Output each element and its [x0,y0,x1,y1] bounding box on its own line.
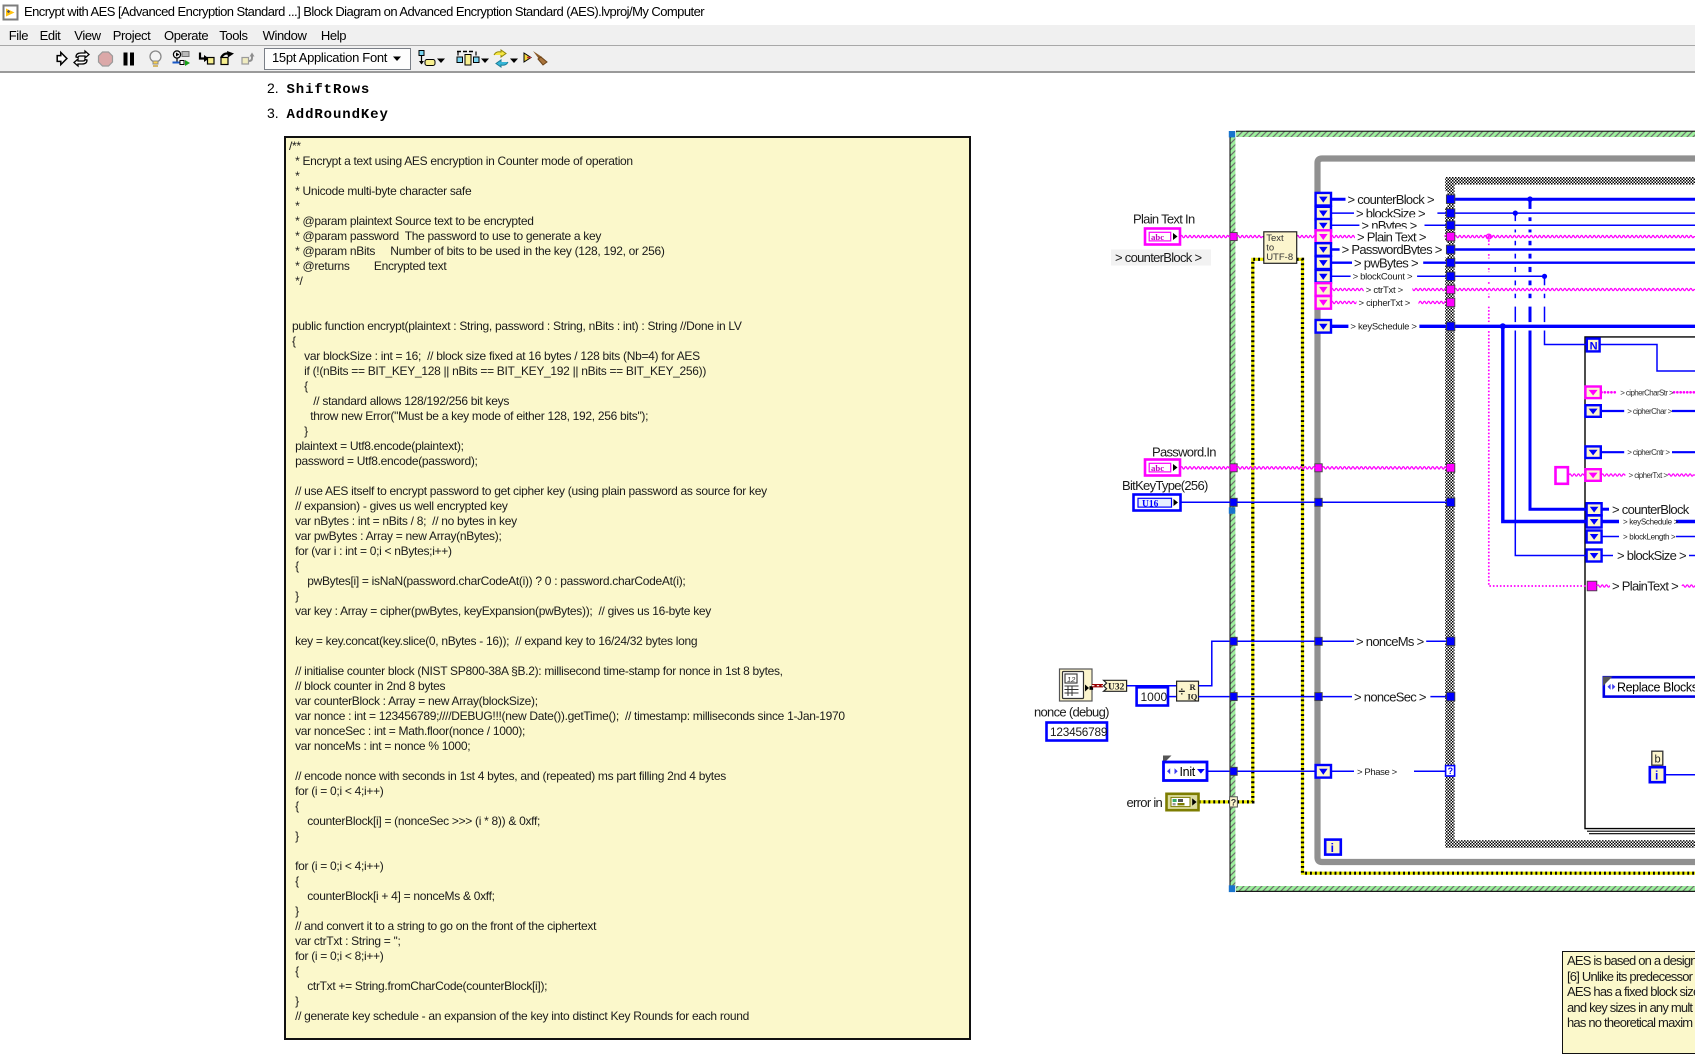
svg-text:Password.In: Password.In [1152,445,1216,460]
wire row blockCount [1331,275,1447,277]
svg-text:> counterBlock >: > counterBlock > [1115,250,1201,265]
AES note box bottom right [1562,951,1695,1054]
junction ring PlainText [1486,234,1491,239]
svg-text:nonce (debug): nonce (debug) [1034,705,1109,720]
wire Phase row [1331,770,1446,772]
step out (grayed) [242,58,249,65]
selection handle mid-left [1229,507,1235,513]
wire row counterBlock [1331,198,1447,201]
retain wire values [173,51,180,58]
tunnel PlainText inner [1587,581,1597,591]
svg-text:> blockLength >: > blockLength > [1623,532,1676,541]
outer green hatched structure border [1230,131,1695,892]
wire row keySchedule [1331,325,1447,328]
terminal Password.In (abc) [1145,460,1180,476]
wire vertical blockCount to N [1545,276,1588,344]
align objects [419,51,424,56]
svg-text:N: N [1590,340,1598,352]
svg-text:1000: 1000 [1141,690,1168,704]
tunnel PlainText [1446,232,1454,241]
tunnel stipple border Password [1446,464,1454,473]
svg-text:i: i [1655,768,1658,782]
svg-text:Replace Blocks: Replace Blocks [1617,680,1695,694]
shift register cipherCharStr [1585,387,1600,399]
svg-text:> keySchedule >: > keySchedule > [1350,322,1417,333]
svg-text:error in: error in [1127,795,1163,810]
constant empty string (pink) [1556,467,1568,484]
step into [200,53,205,59]
wire vertical blockSize feed [1515,213,1586,555]
svg-text:BitKeyType(256): BitKeyType(256) [1122,478,1208,493]
svg-text:> cipherCntr >: > cipherCntr > [1627,448,1670,457]
crossing gaps [1528,209,1533,217]
wire U32 to divide [1127,685,1177,687]
svg-text:U16: U16 [1142,499,1159,509]
svg-text:> cipherCharStr >: > cipherCharStr > [1620,388,1674,397]
wire row ctrTxt [1331,288,1447,290]
svg-text:> counterBlock >: > counterBlock > [1348,192,1434,207]
selection handle top-left [1229,131,1235,137]
svg-text:IQ: IQ [1188,692,1198,702]
tunnel blockCount [1446,272,1454,281]
label PlainText [1355,229,1445,245]
wire Init to Phase SR [1207,770,1230,772]
tunnel green border PlainText [1230,233,1237,241]
svg-text:?: ? [1448,766,1454,776]
wire empty string to cipherTxt SR [1569,474,1585,476]
label PasswordBytes [1340,241,1448,257]
wire N to right [1600,345,1695,372]
count terminal N [1587,339,1600,352]
wire vertical counterBlock feed [1530,199,1587,509]
shift register blockSize2 [1587,550,1602,562]
svg-text:> cipherTxt >: > cipherTxt > [1359,298,1411,309]
run continuously [74,51,89,66]
inner N for-loop thin border [1585,337,1695,829]
shift register Phase [1316,765,1331,778]
svg-text:abc: abc [1151,232,1164,242]
label counterBlock [1346,191,1448,207]
svg-text:> PlainText >: > PlainText > [1612,579,1678,594]
wire cipherCntr [1602,451,1695,453]
junction dot blockSize [1513,211,1518,216]
register b [1652,751,1663,765]
constant Init enum [1163,756,1172,765]
wire vertical PlainText feed (dotted pink) [1489,237,1588,586]
toolbar [0,46,1695,73]
label keySchedule [1348,320,1419,332]
tunnel counterBlock [1446,195,1454,204]
shift register pwBytes [1316,256,1331,269]
error wire [1199,259,1695,873]
svg-text:123456789: 123456789 [1050,725,1107,739]
constant nonce icon [1060,669,1093,701]
shift register cipherChar [1585,405,1600,417]
tunnel stipple border nonceMs [1446,637,1454,646]
font dropdown arrow [393,57,401,62]
svg-text:abc: abc [1151,463,1164,473]
wire Plain Text node to SR [1297,235,1316,237]
svg-text:b: b [1655,754,1661,766]
tunnel stipple border BitKeyType [1446,498,1454,507]
svg-text:> nonceSec >: > nonceSec > [1354,689,1426,704]
label nBytes [1359,217,1424,233]
shift register blockSize [1316,207,1331,220]
wire BitKeyType [1181,501,1231,503]
svg-text:?: ? [1231,797,1237,807]
label ctrTxt [1364,284,1413,296]
wire R output up to nonceMs row [1199,641,1231,685]
shift register blockCount [1316,270,1331,283]
wire row PasswordBytes [1331,248,1447,250]
svg-text:÷: ÷ [1179,685,1186,699]
label blockCount [1351,270,1418,282]
wire 1000 to divide [1168,696,1177,698]
coercion wire nonce to U32 (red dashed) [1092,684,1103,687]
case structure Replace Blocks label [1604,677,1695,696]
tunnel green border nonceSec [1230,693,1237,701]
distribute objects [457,51,473,53]
wire row cipherTxt [1331,301,1447,303]
clean up diagram [524,53,531,62]
node Quotient-Remainder [1177,681,1199,701]
tunnel keySchedule [1446,322,1454,331]
svg-text:> cipherTxt >: > cipherTxt > [1629,471,1669,480]
tunnel PasswordBytes [1446,245,1454,254]
svg-text:> nonceMs >: > nonceMs > [1356,634,1424,649]
resize objects [494,50,506,57]
wire row nonceSec [1237,696,1316,698]
wire vertical keySchedule feed [1503,326,1587,521]
wire cipherCharStr [1602,391,1695,394]
numbered list [267,80,370,98]
terminal error in [1167,794,1199,810]
wire row pwBytes [1331,262,1447,264]
svg-text:Init: Init [1180,765,1196,779]
shift register keySchedule [1316,320,1331,333]
tunnel green border nonceMs [1230,637,1237,645]
wire row PlainText [1331,235,1447,237]
wire blockSize2 [1602,555,1613,557]
highlight execution bulb [150,51,161,62]
iteration terminal i (while) [1325,840,1341,855]
pause [124,53,128,66]
tunnel pwBytes [1446,258,1454,267]
svg-text:Plain Text In: Plain Text In [1133,212,1195,227]
tunnel cipherTxt [1446,298,1454,307]
wire counterBlock2 [1602,508,1609,511]
svg-text:> ctrTxt >: > ctrTxt > [1366,285,1404,296]
junction dot counterBlock [1527,196,1533,202]
tunnel gray border Password [1315,464,1322,472]
coercion U32 box [1104,680,1127,691]
shift register PlainText [1316,230,1331,243]
label cipherTxt [1357,297,1419,309]
shift register counterBlock [1316,193,1331,206]
tunnel green border Init [1230,767,1237,775]
svg-text:> blockSize >: > blockSize > [1617,548,1686,563]
svg-text:12: 12 [1067,675,1076,684]
wire row nonceMs [1237,640,1316,642]
tunnel gray border BitKeyType [1315,498,1322,506]
shift register blockLength [1587,531,1602,543]
shift register nBytes [1316,219,1331,232]
wire IQ output to nonceSec row [1199,696,1231,698]
terminal Plain Text In (abc) [1145,229,1180,245]
iteration terminal i (inner) [1650,767,1665,782]
svg-text:UTF-8: UTF-8 [1266,252,1293,263]
label blockSize [1354,205,1437,221]
wire Plain Text In to structure [1181,235,1231,237]
tunnel gray border nonceMs [1315,637,1322,645]
wire PlainText inner [1597,585,1610,587]
svg-text:i: i [1331,841,1334,855]
for loop stippled border [1445,177,1454,848]
junction dot blockCount [1542,274,1547,279]
label Phase [1354,764,1414,779]
tunnel blockSize [1446,209,1454,218]
tunnel nBytes [1446,221,1454,230]
wire blockLength [1602,536,1619,538]
tunnel ? Phase on stipple border [1446,766,1455,776]
shift register cipherTxt [1585,469,1600,481]
tunnel ctrTxt [1446,285,1454,294]
wire Plain Text inside green to node [1237,235,1264,237]
svg-text:> pwBytes >: > pwBytes > [1354,255,1418,270]
step over [221,54,229,59]
free label > counterBlock > [1111,250,1211,266]
shift register ctrTxt [1316,283,1331,296]
tunnel green border Password [1230,464,1237,472]
run arrow [57,52,67,64]
svg-text:> counterBlock: > counterBlock [1612,502,1690,517]
wire cipherChar [1602,410,1695,412]
menu bar [0,25,1695,45]
svg-text:> cipherChar >: > cipherChar > [1627,407,1672,416]
tunnel ? error on green border [1230,797,1238,807]
window title bar [0,0,1695,25]
label pwBytes [1352,255,1423,271]
tunnel stipple border nonceSec [1446,692,1454,701]
svg-text:> blockCount >: > blockCount > [1353,272,1413,283]
selection handle bottom-left [1229,885,1235,892]
shift register PasswordBytes [1316,243,1331,256]
wire row nBytes [1331,224,1447,226]
while loop gray border [1318,159,1695,863]
stop (grayed) [99,52,113,66]
wire i to right [1665,774,1695,776]
terminal BitKeyType U16 [1134,495,1181,511]
tunnel gray border nonceSec [1315,693,1322,701]
constant 123456789 [1047,723,1108,741]
wire cipherTxt [1602,474,1695,476]
node Text to UTF-8 [1264,232,1297,263]
tunnel green border BitKeyType [1230,498,1237,506]
shift register counterBlock2 [1587,503,1602,515]
shift register cipherCntr [1585,446,1600,458]
yellow code comment box [284,136,971,1040]
svg-text:R: R [1190,682,1197,692]
wire Password to for loop [1181,467,1231,469]
svg-text:U32: U32 [1108,683,1125,693]
shift register cipherTxt [1316,296,1331,309]
junction dot keySchedule [1500,323,1506,329]
shift register keySchedule2 [1587,516,1602,528]
wire row blockSize [1331,212,1447,214]
toolbar icons [0,0,560,75]
LabVIEW app icon [0,0,24,24]
svg-text:> Phase >: > Phase > [1357,767,1398,778]
wire keySchedule2 [1602,520,1619,523]
constant 1000 [1137,687,1168,705]
svg-text:> keySchedule >: > keySchedule > [1623,517,1679,526]
